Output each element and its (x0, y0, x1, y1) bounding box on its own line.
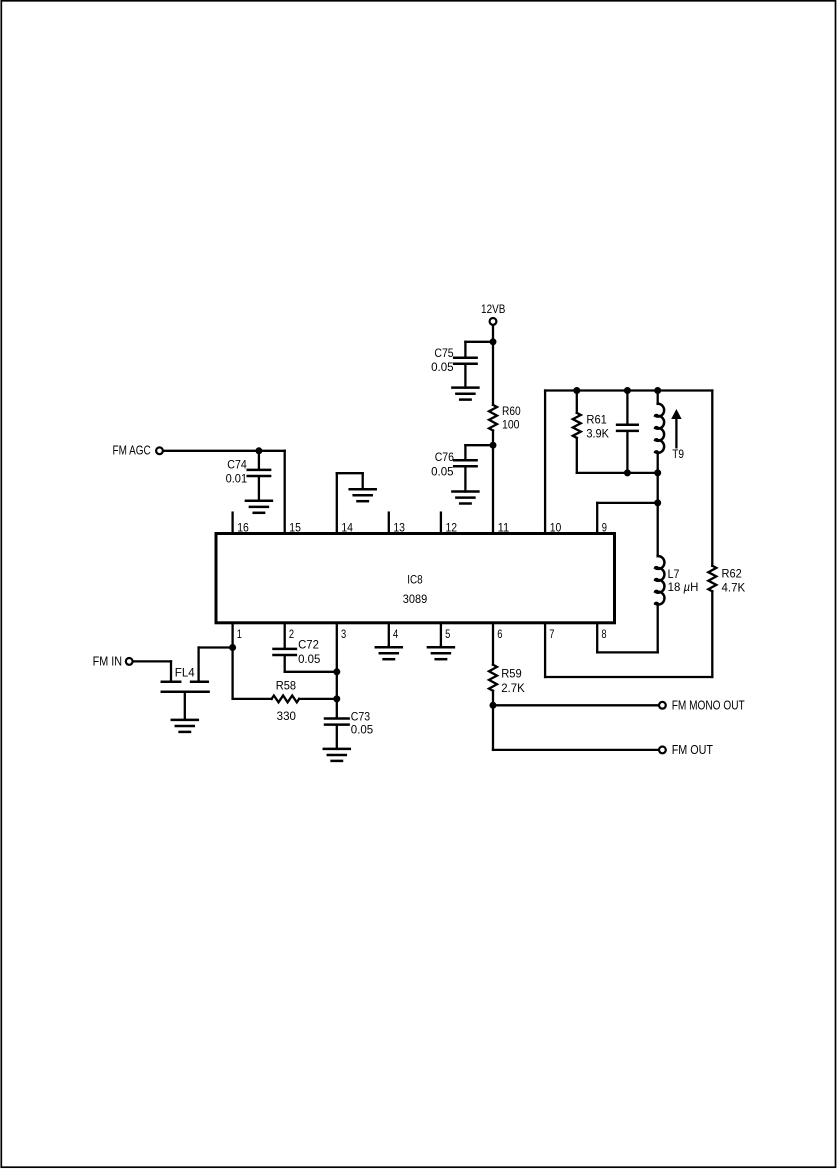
svg-text:L7: L7 (668, 567, 680, 581)
svg-text:15: 15 (289, 520, 301, 534)
svg-text:C73: C73 (351, 710, 371, 724)
svg-text:IC8: IC8 (407, 572, 423, 586)
svg-text:12VB: 12VB (481, 302, 505, 316)
svg-text:12: 12 (446, 520, 458, 534)
svg-text:13: 13 (393, 520, 405, 534)
svg-text:4.7K: 4.7K (722, 581, 746, 595)
svg-text:R58: R58 (276, 678, 297, 692)
svg-text:330: 330 (277, 709, 297, 723)
svg-text:C76: C76 (435, 450, 454, 464)
svg-text:0.01: 0.01 (226, 472, 248, 486)
svg-text:8: 8 (601, 627, 606, 641)
svg-text:14: 14 (341, 520, 353, 534)
svg-text:C75: C75 (434, 346, 453, 360)
svg-text:R60: R60 (502, 404, 521, 418)
svg-text:0.05: 0.05 (431, 360, 454, 374)
svg-text:100: 100 (502, 417, 520, 431)
svg-text:1: 1 (237, 627, 242, 641)
svg-text:2.7K: 2.7K (501, 681, 525, 695)
svg-text:6: 6 (497, 627, 502, 641)
svg-text:3: 3 (341, 627, 346, 641)
svg-text:FM AGC: FM AGC (113, 443, 151, 458)
svg-text:16: 16 (237, 520, 249, 534)
svg-text:18 µH: 18 µH (668, 580, 699, 594)
svg-text:FL4: FL4 (175, 666, 195, 680)
svg-text:0.05: 0.05 (298, 652, 321, 666)
svg-text:9: 9 (602, 520, 607, 534)
svg-text:10: 10 (550, 520, 562, 534)
svg-text:11: 11 (498, 520, 510, 534)
svg-text:3.9K: 3.9K (586, 426, 609, 440)
svg-text:0.05: 0.05 (431, 464, 454, 478)
svg-text:5: 5 (445, 627, 450, 641)
svg-text:7: 7 (549, 627, 554, 641)
svg-text:C74: C74 (227, 458, 247, 472)
svg-text:C72: C72 (298, 637, 319, 651)
svg-text:FM OUT: FM OUT (672, 742, 713, 757)
svg-text:FM IN: FM IN (93, 654, 122, 669)
svg-text:0.05: 0.05 (351, 723, 374, 737)
svg-text:4: 4 (393, 627, 398, 641)
svg-text:R61: R61 (586, 413, 607, 427)
svg-text:FM MONO OUT: FM MONO OUT (672, 698, 745, 713)
svg-text:3089: 3089 (403, 592, 428, 606)
svg-text:R62: R62 (722, 567, 742, 581)
svg-text:2: 2 (289, 627, 294, 641)
svg-text:T9: T9 (672, 447, 684, 461)
svg-text:R59: R59 (501, 667, 522, 681)
